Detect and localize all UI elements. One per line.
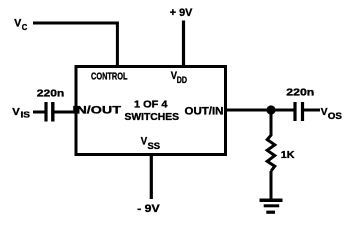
- svg-text:220n: 220n: [37, 88, 64, 99]
- svg-text:OS: OS: [328, 111, 342, 121]
- wire: VC to CONTROL pin: [33, 23, 117, 65]
- wire: node A to C2 left plate: [271, 109, 294, 112]
- svg-text:OUT/IN: OUT/IN: [185, 106, 224, 118]
- svg-text:1K: 1K: [281, 150, 295, 161]
- node/net label VOS: [321, 106, 342, 121]
- svg-text:V: V: [12, 106, 19, 118]
- svg-text:C: C: [22, 22, 28, 32]
- wire: +9V to VDD pin: [182, 21, 185, 66]
- svg-text:V: V: [321, 106, 328, 118]
- svg-text:- 9V: - 9V: [137, 203, 160, 215]
- wire: resistor R1 to ground: [270, 171, 273, 199]
- ground symbol: [260, 200, 283, 212]
- svg-text:IS: IS: [21, 110, 31, 120]
- wire: OUT/IN pin to node A: [226, 109, 271, 112]
- svg-text:V: V: [14, 18, 22, 30]
- pin label VSS: [141, 135, 160, 151]
- IC function label 1 OF 4 SWITCHES: [125, 100, 180, 123]
- svg-text:IN/OUT: IN/OUT: [73, 105, 122, 117]
- wire: node A down to resistor R1: [270, 110, 273, 136]
- wire: C1 right plate to IN/OUT pin: [55, 111, 77, 114]
- wire: VSS pin to -9V: [150, 155, 153, 199]
- capacitor C2 220n (right) plates: [295, 102, 303, 121]
- node/net label VIS: [12, 106, 30, 120]
- wire: VIS to C1 left plate: [33, 111, 45, 114]
- svg-text:220n: 220n: [286, 88, 314, 99]
- svg-text:SWITCHES: SWITCHES: [125, 112, 180, 123]
- svg-text:CONTROL: CONTROL: [91, 72, 128, 83]
- wire: C2 right plate to VOS: [304, 109, 320, 112]
- resistor R1 1K (zigzag): [267, 135, 275, 171]
- svg-text:1 OF 4: 1 OF 4: [134, 100, 168, 111]
- capacitor C1 220n (left) plates: [46, 102, 53, 122]
- pin label VDD: [171, 70, 188, 85]
- node/net label VC: [14, 18, 27, 32]
- IC U1: 1 OF 4 SWITCHES box: [76, 67, 226, 155]
- svg-text:DD: DD: [177, 75, 188, 85]
- junction node A (dot): [266, 105, 275, 114]
- svg-text:+ 9V: + 9V: [170, 7, 193, 19]
- svg-text:SS: SS: [148, 141, 161, 151]
